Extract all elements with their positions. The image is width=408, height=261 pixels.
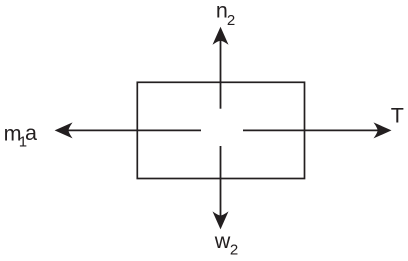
wire: left force shaft [67,129,202,131]
arrowhead right (T) [374,122,392,138]
wire: up force shaft [220,39,222,109]
block (rectangle) [137,82,304,178]
arrowhead left (m1a) [55,122,73,138]
wire: down force shaft [220,146,222,217]
arrowhead down (w2) [213,211,229,229]
svg-text:T: T [391,104,404,128]
arrowhead up (n2) [213,27,229,45]
svg-text:a: a [25,121,37,145]
svg-text:2: 2 [230,242,238,259]
wire: right force shaft [243,129,379,131]
svg-text:w: w [214,229,231,253]
svg-text:2: 2 [227,12,235,29]
